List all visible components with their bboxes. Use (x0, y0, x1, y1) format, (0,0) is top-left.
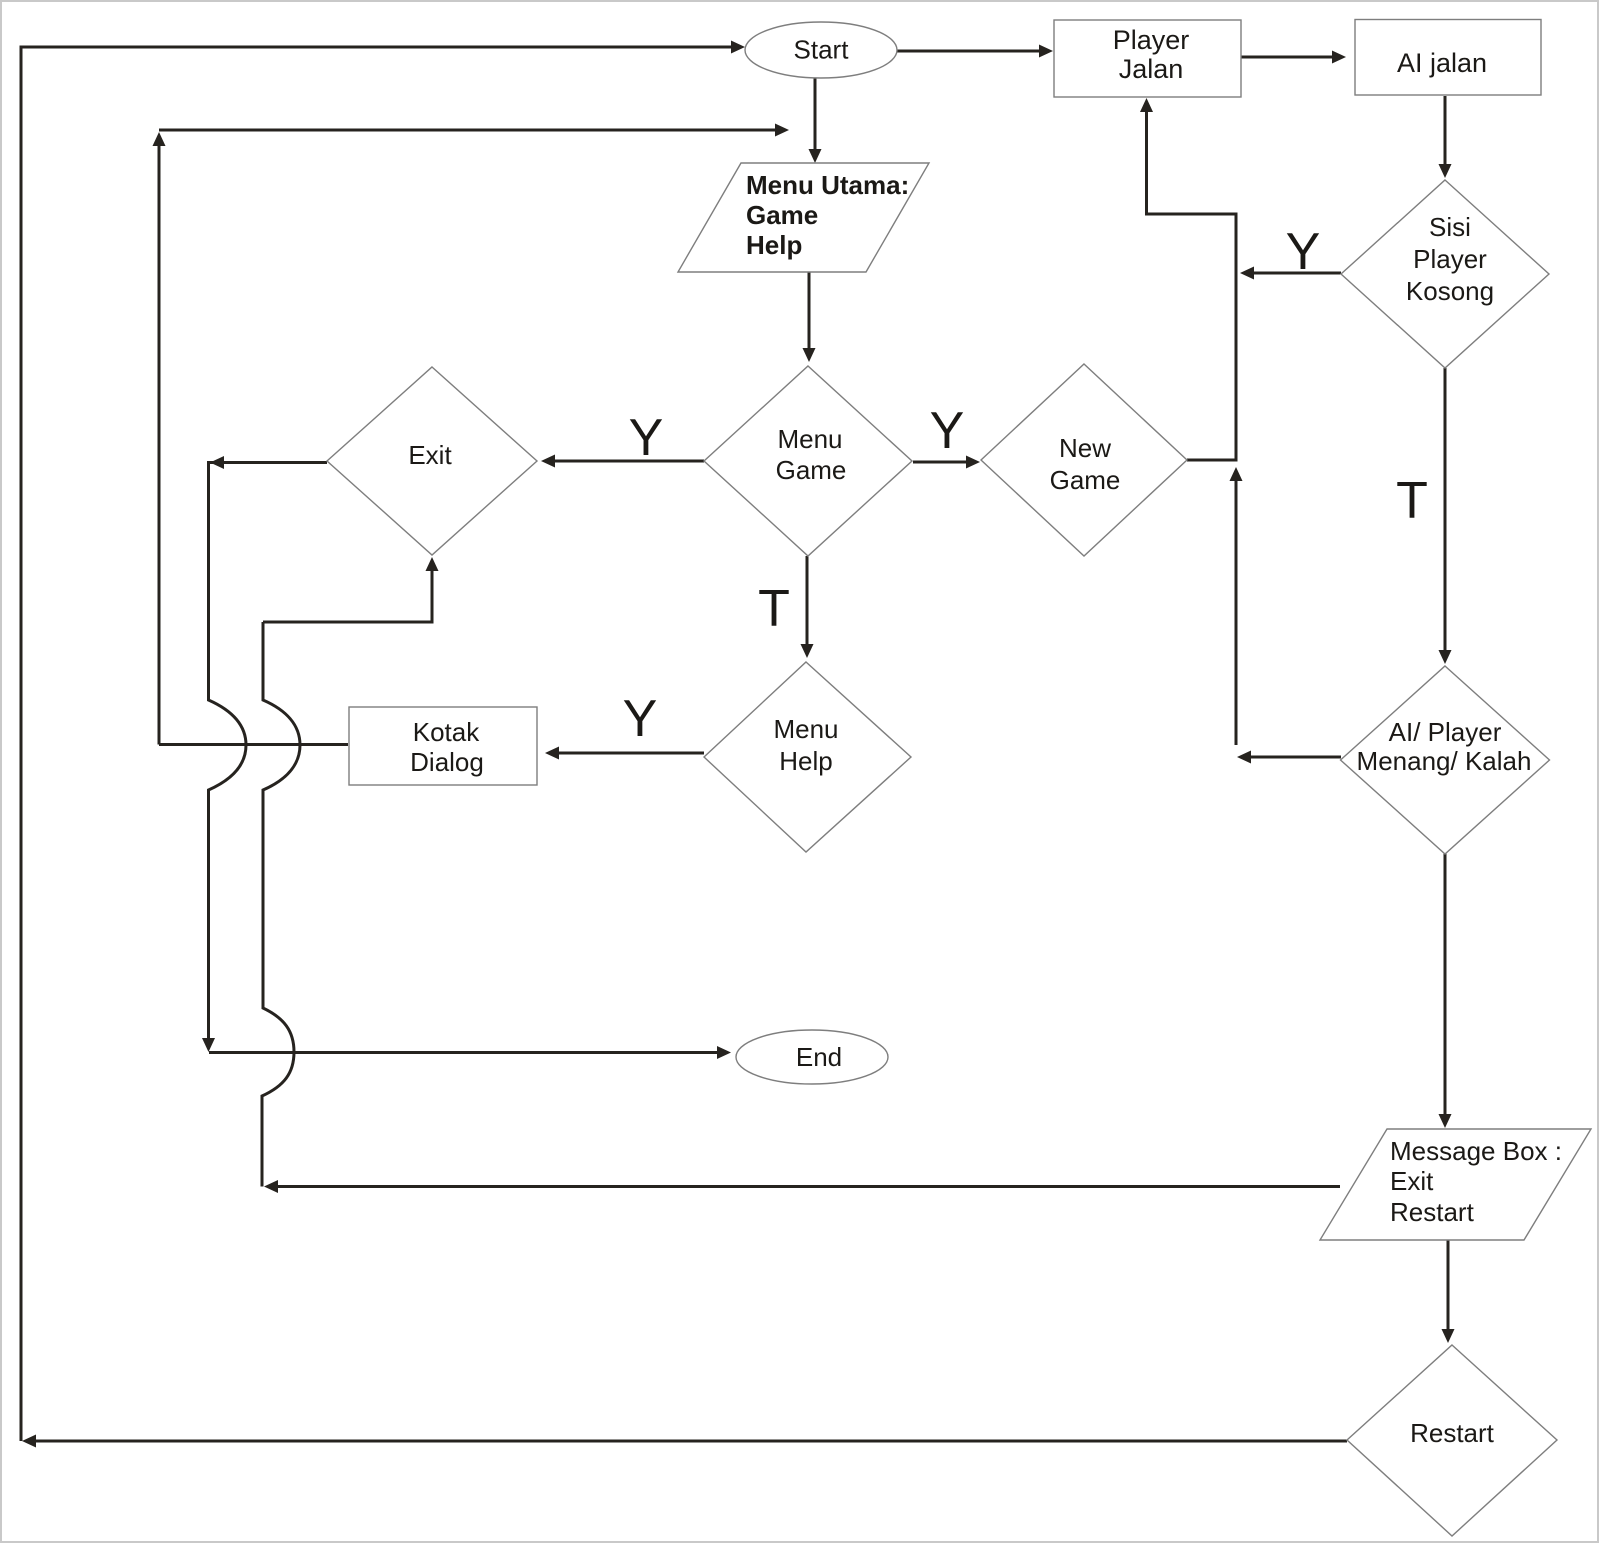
wire kotak dialog up arrow (158, 144, 161, 745)
svg-text:Game: Game (1050, 465, 1121, 495)
io Menu Utama (678, 163, 929, 272)
svg-text:Exit: Exit (1390, 1166, 1434, 1196)
decision Restart (1347, 1345, 1557, 1536)
svg-text:Restart: Restart (1390, 1197, 1475, 1227)
wire AI/player up to junction (1235, 479, 1238, 745)
wire exit down with hop (209, 463, 328, 1041)
wire menu game T to menu help (806, 556, 809, 646)
wire start to player jalan (896, 50, 1041, 53)
process Player Jalan (1054, 20, 1241, 97)
decision Menu Game (704, 366, 912, 556)
arrowhead into end (717, 1046, 731, 1059)
arrowhead AI/player left end (1237, 751, 1251, 764)
wire menu utama to menu game (808, 272, 811, 350)
arrowhead into sisi player kosong (1439, 164, 1452, 178)
arrowhead into player jalan (1039, 45, 1053, 58)
svg-text:Kosong: Kosong (1406, 276, 1494, 306)
arrowhead into start (731, 41, 745, 54)
arrowhead message box line left end (264, 1180, 278, 1193)
svg-text:Game: Game (746, 200, 818, 230)
svg-text:Sisi: Sisi (1429, 212, 1471, 242)
wire menu help Y to kotak dialog (557, 752, 704, 755)
decision AI/Player Menang/Kalah (1341, 666, 1550, 854)
terminator End (736, 1030, 888, 1084)
arrowhead into menu game (803, 348, 816, 362)
svg-text:Kotak: Kotak (413, 717, 480, 747)
wire start to menu utama (814, 78, 817, 151)
arrowhead into menu help (801, 644, 814, 658)
svg-text:T: T (1396, 472, 1428, 530)
wire to end (209, 1051, 719, 1054)
svg-text:Game: Game (776, 455, 847, 485)
svg-text:Menu Utama:: Menu Utama: (746, 170, 909, 200)
process AI jalan (1355, 20, 1541, 96)
process Kotak Dialog (349, 707, 537, 785)
svg-text:New: New (1059, 433, 1111, 463)
arrowhead restart far left (22, 1435, 36, 1448)
arrowhead into kotak dialog right (545, 747, 559, 760)
svg-text:Menang/ Kalah: Menang/ Kalah (1357, 746, 1532, 776)
wire back to menu utama horizontal (159, 129, 777, 132)
svg-text:AI/ Player: AI/ Player (1389, 717, 1502, 747)
arrowhead exit left corner (210, 456, 224, 469)
wire AI/player leftward (1249, 756, 1341, 759)
decision Exit (327, 367, 537, 555)
svg-text:Y: Y (930, 402, 965, 460)
wire new game to player jalan loop (1147, 110, 1237, 460)
arrowhead into exit right (541, 455, 555, 468)
arrowhead into new game (966, 456, 980, 469)
svg-text:Start: Start (794, 35, 850, 65)
decision New Game (981, 364, 1187, 556)
wire message box up with hops (262, 622, 300, 1187)
wire kotak dialog left horizontal (159, 743, 348, 746)
arrowhead into AI jalan (1332, 51, 1346, 64)
wire player jalan to AI jalan (1241, 56, 1334, 59)
arrowhead into message box (1439, 1114, 1452, 1128)
svg-text:Jalan: Jalan (1119, 54, 1184, 84)
wire message box to restart (1447, 1240, 1450, 1331)
svg-text:Dialog: Dialog (410, 747, 484, 777)
svg-text:Help: Help (779, 746, 832, 776)
io Message Box (1320, 1129, 1591, 1240)
arrowhead toward menu utama line (775, 124, 789, 137)
svg-text:Menu: Menu (777, 424, 842, 454)
svg-text:Restart: Restart (1410, 1418, 1495, 1448)
terminator Start (745, 22, 897, 78)
wire menu game Y to new game (913, 461, 968, 464)
svg-text:Message Box :: Message Box : (1390, 1136, 1562, 1166)
svg-text:AI jalan: AI jalan (1397, 48, 1487, 78)
decision Sisi Player Kosong (1341, 180, 1549, 368)
wire sisi Y leftward (1252, 272, 1341, 275)
arrowhead kotak line top (153, 132, 166, 146)
svg-text:Y: Y (629, 409, 664, 467)
decision Menu Help (704, 662, 911, 852)
wire menu game Y to exit (553, 460, 704, 463)
svg-text:Y: Y (1286, 223, 1321, 281)
wire restart-to-start top segment (21, 47, 733, 1441)
arrowhead into restart (1442, 1329, 1455, 1343)
arrowhead into AI/player menang/kalah (1439, 650, 1452, 664)
wire AI/player to message box (1444, 853, 1447, 1116)
arrowhead sisi Y left end (1240, 267, 1254, 280)
wire restart left segment (34, 1440, 1347, 1443)
wire message box leftward (276, 1185, 1340, 1188)
svg-text:Exit: Exit (408, 440, 452, 470)
wire AI jalan to sisi player kosong (1444, 96, 1447, 166)
svg-text:Player: Player (1413, 244, 1487, 274)
arrowhead junction below new game (1230, 467, 1243, 481)
svg-text:Menu: Menu (773, 714, 838, 744)
wire to exit bottom (263, 569, 432, 622)
wire sisi T to AI/player menang/kalah (1444, 368, 1447, 652)
svg-text:Y: Y (623, 690, 658, 748)
svg-text:End: End (796, 1042, 842, 1072)
arrowhead into menu utama (809, 149, 822, 163)
svg-text:Help: Help (746, 230, 802, 260)
arrowhead into exit bottom (426, 557, 439, 571)
arrowhead into player jalan bottom (1140, 98, 1153, 112)
svg-text:Player: Player (1113, 25, 1190, 55)
arrowhead onto end line (202, 1038, 215, 1052)
svg-text:T: T (758, 580, 790, 638)
